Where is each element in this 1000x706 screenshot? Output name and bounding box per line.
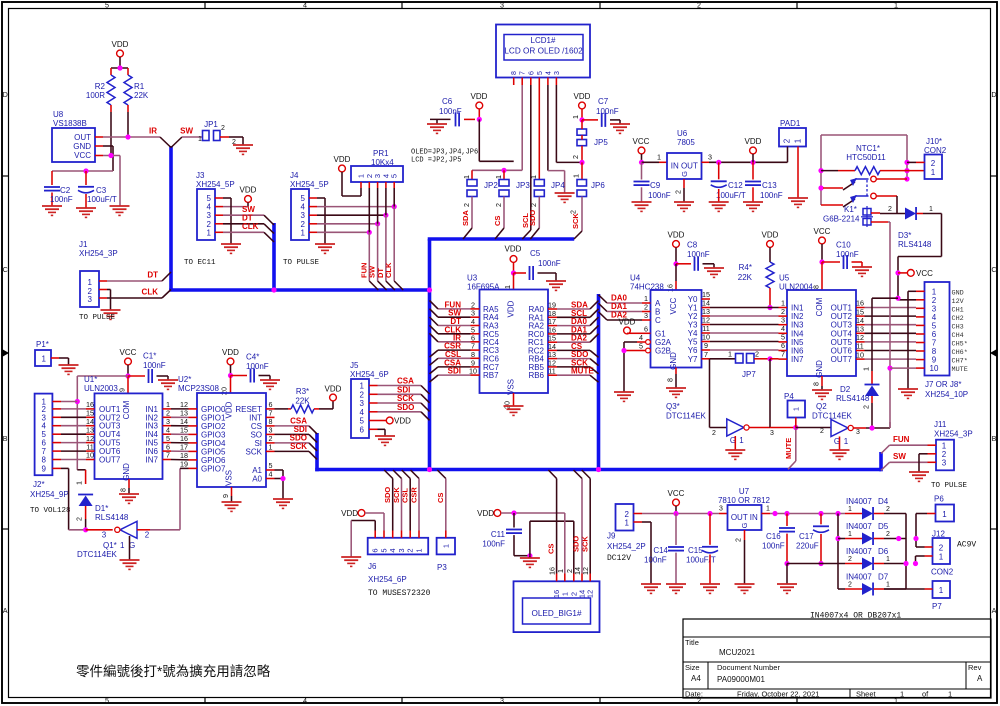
svg-text:1: 1 xyxy=(894,0,898,9)
wire D7 anode xyxy=(845,588,862,590)
svg-text:J4: J4 xyxy=(290,171,299,180)
connector J3 XH254_5P xyxy=(196,171,235,240)
svg-text:C10: C10 xyxy=(836,241,851,250)
wire CLK xyxy=(107,288,162,299)
svg-text:TO PULSE: TO PULSE xyxy=(931,482,968,490)
svg-text:U6: U6 xyxy=(677,129,688,138)
svg-text:3: 3 xyxy=(397,548,406,552)
wire SDI J5 xyxy=(378,385,422,394)
svg-text:JP5: JP5 xyxy=(594,138,608,147)
svg-text:XH254_6P: XH254_6P xyxy=(368,575,407,584)
svg-text:DTC114EK: DTC114EK xyxy=(77,550,118,559)
capacitor C11 xyxy=(482,513,522,556)
ground Q3 xyxy=(725,450,745,459)
wire J6 pin6 gnd xyxy=(351,521,375,558)
svg-text:9: 9 xyxy=(118,388,127,392)
ground C1 xyxy=(158,380,178,389)
wire P1 to ground xyxy=(59,358,69,365)
svg-text:RLS4148: RLS4148 xyxy=(836,394,870,403)
svg-text:Friday, October 22, 2021: Friday, October 22, 2021 xyxy=(737,690,819,699)
svg-text:Y6: Y6 xyxy=(688,346,698,355)
svg-text:SDO: SDO xyxy=(397,403,414,412)
connector P3 xyxy=(437,531,455,573)
wire J2 pin7 to OUT6 xyxy=(61,450,86,452)
power VDD R3 xyxy=(325,385,342,401)
ground C8 xyxy=(704,268,724,277)
wire CSR col J6 xyxy=(410,479,420,531)
relay coil K1* G6B-2214 xyxy=(823,205,888,227)
svg-text:U7: U7 xyxy=(739,487,750,496)
wire SW to JP1 xyxy=(180,127,202,144)
svg-text:IN4007: IN4007 xyxy=(846,573,872,582)
wire U6 pin2 ground xyxy=(674,179,685,202)
svg-text:2: 2 xyxy=(783,138,792,143)
ground C16 xyxy=(777,584,797,593)
bus entry CLK U3 xyxy=(430,325,439,334)
capacitor C15 xyxy=(686,514,718,585)
svg-text:22K: 22K xyxy=(134,91,149,100)
svg-text:RB7: RB7 xyxy=(483,371,499,380)
svg-text:Y7: Y7 xyxy=(688,355,698,364)
svg-text:2: 2 xyxy=(674,190,683,194)
svg-text:CLK: CLK xyxy=(384,262,393,278)
svg-text:CSL: CSL xyxy=(401,488,410,503)
svg-text:MCU2021: MCU2021 xyxy=(719,648,756,657)
svg-text:Q2: Q2 xyxy=(816,402,827,411)
svg-text:1: 1 xyxy=(571,115,580,119)
svg-text:D6: D6 xyxy=(878,547,889,556)
svg-text:RB6: RB6 xyxy=(528,371,544,380)
wire D6 anode xyxy=(845,563,862,565)
power VDD J6 xyxy=(341,509,384,531)
bus entry FUN col xyxy=(369,281,378,290)
svg-text:P1*: P1* xyxy=(36,340,49,349)
wire J2 pin1 to VCC xyxy=(61,401,77,403)
svg-text:GND: GND xyxy=(815,360,824,378)
connector J1 XH254_3P xyxy=(79,240,118,307)
wire DA2 from U3 xyxy=(557,334,590,343)
diode D4 IN4007 xyxy=(846,497,906,520)
wire CS col OLED xyxy=(547,479,557,574)
wire J3 pin5 ground xyxy=(223,198,231,244)
svg-text:GND: GND xyxy=(952,289,964,297)
IC U2* MCP23S08 xyxy=(178,375,275,487)
svg-text:2: 2 xyxy=(406,548,415,552)
svg-text:XH254_2P: XH254_2P xyxy=(607,542,646,551)
svg-text:19: 19 xyxy=(180,460,188,469)
svg-text:2: 2 xyxy=(931,159,936,168)
ground P1 xyxy=(59,365,79,374)
svg-text:NTC1*: NTC1* xyxy=(856,144,880,153)
svg-text:1: 1 xyxy=(120,541,125,550)
svg-text:IN7: IN7 xyxy=(791,355,804,364)
svg-text:LCD OR OLED /1602: LCD OR OLED /1602 xyxy=(504,47,583,56)
svg-text:C9: C9 xyxy=(650,181,661,190)
bus exit SCK OLED xyxy=(582,470,591,479)
connector J7 XH254_10P xyxy=(916,282,968,399)
note OLED/LCD jumpers xyxy=(411,149,478,165)
svg-text:OUT7: OUT7 xyxy=(99,456,121,465)
bus entry SCK U2 xyxy=(309,451,317,459)
wire J7 pin1 to ground xyxy=(908,291,916,389)
label TO PULSE (J11) xyxy=(931,482,968,490)
wire DT to U3 xyxy=(438,317,471,326)
svg-text:100nF: 100nF xyxy=(648,191,671,200)
svg-text:DTC114EK: DTC114EK xyxy=(812,412,853,421)
wire DA0 bus to U4 A xyxy=(599,294,643,304)
wire SCL from U3 xyxy=(557,309,590,318)
svg-text:CLK: CLK xyxy=(242,222,259,231)
svg-text:1: 1 xyxy=(791,407,800,411)
svg-text:SDI: SDI xyxy=(448,367,461,376)
svg-text:7: 7 xyxy=(520,71,527,75)
wire CSL col J6 xyxy=(401,479,411,531)
wire VCC to J7 pin2 xyxy=(898,299,916,301)
svg-text:1: 1 xyxy=(766,506,770,513)
ground J9 xyxy=(641,584,661,593)
wire VDD to U2 pin20 xyxy=(220,376,231,396)
title block xyxy=(683,619,991,699)
regulator U7 7810 OR 7812 xyxy=(718,487,771,530)
wire SDO col OLED xyxy=(572,479,583,574)
svg-text:RLS4148: RLS4148 xyxy=(898,240,932,249)
svg-text:SCK: SCK xyxy=(246,447,263,456)
svg-text:100nF: 100nF xyxy=(538,259,561,268)
wire JP7 to IN7 xyxy=(754,350,785,362)
ground J5 xyxy=(375,436,395,445)
svg-text:P7: P7 xyxy=(932,602,942,611)
svg-text:XH254_10P: XH254_10P xyxy=(925,390,968,399)
svg-text:2: 2 xyxy=(697,0,701,9)
svg-text:7805: 7805 xyxy=(677,138,695,147)
ground C14 xyxy=(666,584,686,593)
svg-text:1: 1 xyxy=(848,531,852,538)
svg-text:2: 2 xyxy=(888,206,892,213)
label TO PULSE (J1) xyxy=(79,314,116,322)
svg-text:XH254_9P: XH254_9P xyxy=(30,490,69,499)
svg-text:LCD =JP2,JP5: LCD =JP2,JP5 xyxy=(411,157,461,165)
wire U3 pin20 VSS xyxy=(503,393,514,409)
bus entry CS xyxy=(495,228,504,239)
power VDD J3 xyxy=(240,186,257,207)
ground C10 xyxy=(852,267,872,276)
ground J4 xyxy=(315,244,335,253)
svg-text:IN4007: IN4007 xyxy=(846,522,872,531)
ground PAD1 xyxy=(788,198,808,207)
connector P4 xyxy=(784,392,805,428)
capacitor C9 xyxy=(634,162,671,202)
wire U7 pin2 gnd xyxy=(734,530,745,584)
IC U5 ULN2004 xyxy=(779,274,865,378)
bus entry SDO J5 xyxy=(421,412,430,421)
thermistor NTC1* HTC50D11 xyxy=(821,144,910,175)
svg-text:SCK: SCK xyxy=(397,394,414,403)
wire VCC branch to D1 xyxy=(75,470,86,485)
wire CS from U3 xyxy=(557,342,590,351)
wire J1 pin2 to ground xyxy=(107,290,111,311)
svg-text:10: 10 xyxy=(86,451,94,460)
wire MUTE to J7 pin10 xyxy=(890,367,916,369)
connector J9 XH254_2P xyxy=(607,504,646,563)
capacitor C2 xyxy=(44,171,73,206)
ground C2 xyxy=(42,206,62,215)
svg-text:VCC: VCC xyxy=(916,269,933,278)
power VDD PR1 xyxy=(334,155,351,196)
svg-text:C17: C17 xyxy=(799,532,814,541)
IC U4 74HC238 xyxy=(630,274,710,370)
wire MUTE to bus xyxy=(784,428,796,462)
svg-text:CH2: CH2 xyxy=(952,315,964,323)
svg-text:XH254_5P: XH254_5P xyxy=(196,180,235,189)
bus entry SW U3 xyxy=(430,309,439,318)
svg-text:OUT7: OUT7 xyxy=(831,355,853,364)
diode D5 IN4007 xyxy=(846,522,906,545)
svg-text:7810 OR 7812: 7810 OR 7812 xyxy=(718,496,771,505)
wire RESET to R3 xyxy=(275,408,289,410)
svg-text:5: 5 xyxy=(639,342,643,351)
svg-text:C1*: C1* xyxy=(143,352,156,361)
power VCC U7 xyxy=(668,489,685,514)
IC U8 VS1838B xyxy=(52,110,103,162)
wire J4 pin4 xyxy=(317,204,397,209)
svg-text:2: 2 xyxy=(529,203,538,207)
svg-text:B: B xyxy=(992,434,997,443)
svg-text:1: 1 xyxy=(886,556,890,563)
bus entry SW col xyxy=(378,281,387,290)
wire SDO col J6 xyxy=(383,479,393,531)
svg-text:SW: SW xyxy=(180,127,193,136)
svg-text:JP4: JP4 xyxy=(551,181,565,190)
svg-text:4: 4 xyxy=(303,696,307,705)
svg-text:PR1: PR1 xyxy=(373,149,389,158)
ground U2 xyxy=(222,502,242,511)
diode D6 IN4007 xyxy=(846,547,906,570)
svg-text:2: 2 xyxy=(862,405,871,409)
svg-text:2: 2 xyxy=(848,556,852,563)
svg-text:1: 1 xyxy=(794,138,803,143)
wire DA2 bus to U4 C xyxy=(599,311,643,321)
bus entry SDA U3 xyxy=(590,301,599,310)
wire J3 pin4 VDD xyxy=(223,206,248,208)
svg-text:2: 2 xyxy=(939,544,944,553)
ground J6 xyxy=(341,557,361,566)
bus entry SCK xyxy=(574,231,582,239)
wire D2 anode to Q2 node xyxy=(862,396,873,428)
svg-text:VDD: VDD xyxy=(341,509,358,518)
bus exit SDO OLED xyxy=(574,470,583,479)
wire AC leg to D5/D7 xyxy=(835,514,845,590)
wire U7 pin1 out xyxy=(762,506,846,517)
power VDD C6 xyxy=(471,92,488,122)
bus entry CLK J3 xyxy=(264,232,274,242)
svg-text:PAD1: PAD1 xyxy=(780,119,801,128)
svg-text:IN4007x4 OR DB207x1: IN4007x4 OR DB207x1 xyxy=(810,612,901,621)
svg-text:SCK: SCK xyxy=(581,536,590,552)
svg-text:D: D xyxy=(991,90,996,99)
capacitor C7 xyxy=(582,97,620,127)
wire D7 to P7 xyxy=(884,588,925,590)
svg-text:Sheet: Sheet xyxy=(856,690,877,699)
bus entry IR xyxy=(160,137,171,148)
svg-text:XH254_3P: XH254_3P xyxy=(934,430,973,439)
svg-text:CLK: CLK xyxy=(142,288,159,297)
svg-text:22K: 22K xyxy=(738,273,753,282)
power VDD U2 xyxy=(222,348,239,378)
svg-text:G: G xyxy=(740,522,749,528)
svg-text:1: 1 xyxy=(894,696,898,705)
svg-text:2: 2 xyxy=(848,582,852,589)
power VDD JP5 xyxy=(574,92,591,123)
svg-text:9: 9 xyxy=(42,464,47,473)
wire CSL to U3 xyxy=(438,350,471,359)
svg-text:Title: Title xyxy=(685,638,699,647)
label AC9V xyxy=(957,541,976,550)
bus vertical x598.5 xyxy=(597,294,601,471)
svg-text:ULN2003: ULN2003 xyxy=(84,384,118,393)
svg-text:1: 1 xyxy=(42,355,47,364)
wire SDO from U3 xyxy=(557,350,590,359)
ground U8 VCC filter xyxy=(110,206,130,215)
wire J2 pin3 to OUT2 xyxy=(61,416,86,418)
svg-text:4: 4 xyxy=(360,408,365,417)
wire J9 pin1 gnd xyxy=(642,522,651,584)
svg-text:VDD: VDD xyxy=(325,385,342,394)
bus entry CS U3 xyxy=(590,350,599,357)
wire D4 anode xyxy=(845,513,862,515)
bus vertical J3 entries x274 xyxy=(272,223,276,292)
svg-text:6: 6 xyxy=(644,325,648,334)
svg-text:CS: CS xyxy=(547,544,556,554)
svg-text:12: 12 xyxy=(581,567,590,575)
svg-text:1: 1 xyxy=(948,690,952,699)
ground U4 xyxy=(666,388,686,397)
svg-text:1: 1 xyxy=(900,690,904,699)
svg-text:VCC: VCC xyxy=(633,137,650,146)
wire VCC pin of U8 xyxy=(103,153,120,206)
wire LCD pin6 (SCL) down xyxy=(530,85,532,230)
wire U2 VSS pin9 xyxy=(221,487,232,502)
svg-text:D3*: D3* xyxy=(898,231,911,240)
svg-text:G1: G1 xyxy=(655,329,666,338)
svg-text:VDD: VDD xyxy=(668,231,685,240)
diode D2 RLS4148 xyxy=(836,385,880,404)
connector J5 XH254_6P xyxy=(350,361,389,438)
svg-text:TO MUSES72320: TO MUSES72320 xyxy=(368,589,431,598)
svg-text:COM: COM xyxy=(122,400,131,419)
wire DT (J3) xyxy=(223,214,264,224)
svg-text:11: 11 xyxy=(548,367,555,376)
svg-text:2: 2 xyxy=(571,155,580,159)
svg-text:VCC: VCC xyxy=(669,297,678,314)
svg-text:9: 9 xyxy=(221,494,230,498)
wire Q3 collector to IN7 xyxy=(749,359,798,437)
svg-text:VDD: VDD xyxy=(574,92,591,101)
svg-text:U2*: U2* xyxy=(178,375,191,384)
svg-text:1: 1 xyxy=(301,228,306,237)
svg-text:A: A xyxy=(992,606,997,615)
svg-text:GND: GND xyxy=(73,142,91,151)
wire SCK J5 xyxy=(378,394,422,403)
relay armature dashes xyxy=(866,180,868,196)
svg-text:3: 3 xyxy=(942,459,947,468)
bus entry CSR U3 xyxy=(430,350,439,357)
wire J10 pin2 xyxy=(907,161,916,163)
svg-text:4: 4 xyxy=(269,470,273,479)
connector J6 XH254_6P xyxy=(368,531,431,599)
svg-text:2: 2 xyxy=(734,538,743,542)
power VCC flag D3 xyxy=(898,269,933,278)
svg-text:HTC50D11: HTC50D11 xyxy=(846,153,886,162)
svg-text:of: of xyxy=(922,690,929,699)
wire GND pin of U8 xyxy=(52,146,113,174)
svg-text:J2*: J2* xyxy=(33,480,45,489)
svg-text:8: 8 xyxy=(119,488,128,492)
wire CSA to U3 xyxy=(438,358,471,367)
svg-text:2: 2 xyxy=(886,506,890,513)
svg-text:B: B xyxy=(3,434,8,443)
svg-text:PA09000M01: PA09000M01 xyxy=(717,675,765,684)
svg-text:XH254_5P: XH254_5P xyxy=(290,180,329,189)
wire VCC to U1 COM pin9 xyxy=(118,376,129,393)
wire U6 pin3 VDD rail xyxy=(702,153,788,165)
svg-text:C15: C15 xyxy=(688,546,703,555)
wire J2 pin6 to OUT5 xyxy=(61,442,86,444)
wire MUTE from U3 xyxy=(557,367,594,376)
bus entry CSL U3 xyxy=(430,358,439,365)
svg-text:10: 10 xyxy=(856,350,864,359)
svg-text:VDD: VDD xyxy=(505,245,522,254)
bus stub x881 (FUN/SW) xyxy=(879,452,883,471)
ground J7 xyxy=(898,389,918,398)
ground C7 xyxy=(610,124,630,133)
bus vertical x429.5 xyxy=(428,239,432,471)
svg-text:CH1: CH1 xyxy=(952,306,964,314)
pad PAD1 xyxy=(779,119,806,147)
svg-text:IN4007: IN4007 xyxy=(846,547,872,556)
svg-text:TO PULSE: TO PULSE xyxy=(283,259,320,267)
svg-text:J3: J3 xyxy=(196,171,205,180)
svg-text:J1: J1 xyxy=(79,240,88,249)
wire G2A/G2B to ground xyxy=(621,342,645,392)
bus entry DA1 U3 xyxy=(590,325,599,334)
svg-text:100uF/T: 100uF/T xyxy=(686,556,716,565)
svg-text:2: 2 xyxy=(820,428,824,435)
wire DT xyxy=(107,271,162,282)
svg-text:VDD: VDD xyxy=(507,300,516,317)
label TO PULSE (J4) xyxy=(283,259,320,267)
capacitor C3 xyxy=(78,171,117,208)
bus entry SCL xyxy=(521,213,531,239)
svg-text:D7: D7 xyxy=(878,573,889,582)
wire LCD pin7 to JP2/JP3 xyxy=(472,85,522,180)
svg-text:LCD1#: LCD1# xyxy=(531,36,556,45)
svg-text:VCC: VCC xyxy=(120,348,137,357)
wire A1/A0 to ground xyxy=(275,470,286,499)
svg-text:5: 5 xyxy=(380,548,389,552)
svg-text:2: 2 xyxy=(221,125,225,132)
svg-text:XH254_3P: XH254_3P xyxy=(79,249,118,258)
ground U6 xyxy=(674,202,694,211)
wire C8 to U4 VCC pin16 xyxy=(666,264,677,292)
svg-text:CSA: CSA xyxy=(397,377,414,386)
svg-text:1: 1 xyxy=(939,586,944,595)
bus entry CSA J5 xyxy=(421,386,430,395)
svg-text:A4: A4 xyxy=(691,674,701,683)
diode D3* RLS4148 xyxy=(898,206,933,249)
bus entry CSA U2 xyxy=(309,426,317,434)
svg-text:100R: 100R xyxy=(86,91,105,100)
diode D1* RLS4148 xyxy=(78,495,129,523)
